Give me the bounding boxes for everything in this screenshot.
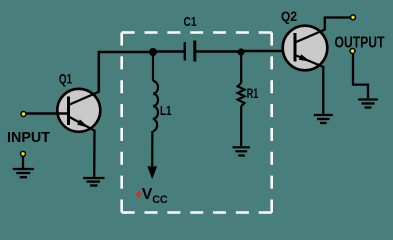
ground at output jack	[358, 100, 378, 108]
wire C1 right plate to node B	[195, 50, 241, 52]
ground below input terminal	[13, 169, 34, 177]
wire Q1 collector riser and top rail to node A	[99, 52, 153, 92]
svg-text:OUTPUT: OUTPUT	[335, 35, 385, 52]
Q1 base bar	[67, 97, 70, 126]
input terminal (ground)	[20, 151, 26, 157]
capacitor C1	[185, 41, 195, 62]
wire Q2 collector to output terminal	[325, 18, 352, 31]
resistor R1	[238, 52, 245, 146]
svg-text:Q1: Q1	[59, 71, 72, 86]
Q2 base bar	[294, 33, 297, 62]
wire L1 to Vcc arrow	[151, 131, 153, 166]
wire input ground terminal to ground	[22, 156, 24, 168]
svg-text:C1: C1	[184, 14, 197, 29]
node B junction dot	[237, 48, 244, 55]
svg-text:V: V	[142, 186, 153, 203]
wire Q2 emitter to ground	[322, 66, 324, 114]
output terminal (hot)	[350, 14, 356, 20]
Vcc feed arrowhead	[147, 166, 157, 179]
input terminal (hot)	[20, 111, 26, 117]
svg-text:Q2: Q2	[281, 8, 297, 24]
wire Q1 emitter to ground	[93, 130, 96, 177]
ground below Q2 emitter	[314, 115, 333, 123]
svg-text:INPUT: INPUT	[7, 129, 50, 146]
Q1 collector lead	[69, 92, 100, 106]
wire input terminal to Q1 base	[25, 112, 69, 114]
ground below Q1	[83, 178, 105, 186]
node A junction dot	[149, 48, 157, 56]
svg-text:R1: R1	[247, 86, 259, 101]
wire node A to C1 left plate	[153, 50, 184, 52]
Q2 collector lead	[295, 30, 325, 43]
output terminal (ground)	[349, 48, 355, 54]
wire output ground terminal to ground	[353, 54, 368, 98]
Q1 emitter lead	[69, 117, 95, 131]
Q2 emitter lead	[295, 55, 324, 67]
Q2 emitter arrowhead	[299, 54, 311, 62]
svg-text:L1: L1	[160, 104, 172, 118]
inductor L1	[153, 52, 158, 131]
label +Vcc	[136, 186, 168, 206]
dashed tuned-circuit box	[122, 33, 272, 213]
Q1 emitter arrowhead	[77, 119, 89, 127]
ground below R1	[233, 147, 251, 155]
transistor Q2	[283, 26, 328, 71]
svg-text:CC: CC	[152, 194, 168, 206]
transistor Q1	[57, 89, 100, 132]
wire node B to Q2 base	[241, 50, 295, 52]
